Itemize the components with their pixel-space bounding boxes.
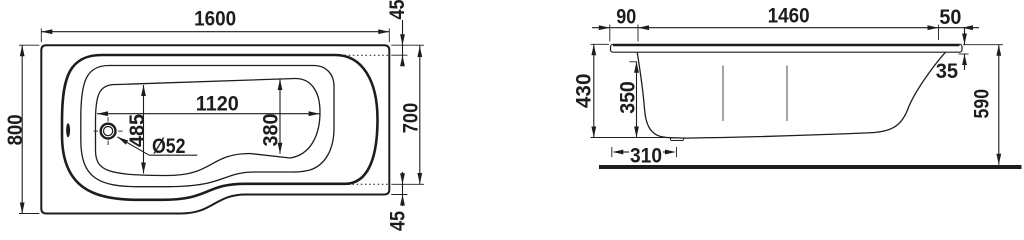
side view: tub body profile (637, 52, 945, 138)
dim 90 label (616, 5, 636, 29)
side view: rim profile (611, 44, 963, 52)
dim 700 label (399, 103, 423, 134)
dim 310 extension ticks (612, 147, 677, 157)
svg-text:380: 380 (259, 113, 283, 146)
dim 310 label (630, 144, 662, 168)
dim 1600 label (194, 7, 236, 31)
dim 350 label (616, 81, 640, 114)
svg-text:430: 430 (572, 73, 596, 108)
dim 430 line (591, 44, 596, 137)
plan view: basin rim inner edge (thick contour) (62, 55, 378, 200)
dim 590 extension line (963, 44, 1003, 46)
dim 430 label (572, 73, 596, 108)
dim 45 bottom-right line (400, 172, 405, 206)
dim 800 line (20, 45, 25, 213)
svg-text:1600: 1600 (194, 7, 236, 31)
svg-text:485: 485 (125, 114, 149, 147)
svg-text:700: 700 (399, 103, 423, 134)
plan view: overflow marker (66, 123, 70, 137)
dim 35 label (936, 59, 958, 83)
side view: panel seam lines (723, 66, 787, 122)
dim 380 line (278, 79, 283, 154)
svg-text:45: 45 (385, 0, 409, 20)
dim 45 bottom-right extension lines (391, 184, 424, 194)
dim 1120 label (196, 92, 239, 116)
dim 430 extension lines (591, 44, 669, 137)
dim 485 line (141, 85, 146, 174)
side view: foot pad (671, 138, 684, 141)
dim 1600 extension lines (41, 29, 389, 43)
plan view: drain crosshair ticks (94, 117, 123, 145)
label diameter 52 (152, 134, 186, 158)
dim 800 label (3, 114, 27, 145)
dim 350 line (634, 62, 639, 138)
dim 310 line (612, 150, 676, 155)
dim 1460 line (638, 25, 939, 30)
plan view: basin middle contour (81, 65, 334, 186)
plan view: tub outer contour (41, 45, 389, 213)
plan view: drain outer circle (101, 124, 116, 139)
dim 50 label (939, 5, 961, 29)
dim 90 line (592, 25, 638, 30)
plan view: basin floor contour (96, 78, 321, 175)
dim 35 extension tick (959, 53, 969, 55)
plan view: hidden rim edge dotted bottom (344, 183, 388, 185)
svg-text:1120: 1120 (196, 92, 239, 116)
dim 590 line (996, 45, 1001, 165)
dim 45 bottom-right label (386, 211, 410, 231)
svg-text:590: 590 (970, 89, 994, 119)
side view: floor line (599, 165, 1022, 169)
plan view: hidden rim edge dotted top (336, 54, 388, 56)
svg-text:35: 35 (936, 59, 958, 83)
svg-text:350: 350 (616, 81, 640, 114)
dim 800 extension lines (19, 45, 39, 213)
dim 485 label (125, 114, 149, 147)
leader diameter 52 (118, 137, 198, 155)
svg-text:45: 45 (386, 211, 410, 231)
dim 45 top-right extension lines (391, 45, 424, 55)
dim 590 label (970, 89, 994, 119)
svg-text:Ø52: Ø52 (152, 134, 186, 158)
dim 700 line (417, 45, 422, 184)
dim 90 extension lines (610, 25, 638, 42)
dim 45 top-right line (400, 20, 405, 66)
dim 45 top-right label (385, 0, 409, 20)
dim 50 line (939, 25, 980, 30)
dim 350 extension tick (630, 61, 638, 63)
svg-text:1460: 1460 (768, 4, 810, 28)
svg-text:800: 800 (3, 114, 27, 145)
svg-text:90: 90 (616, 5, 636, 29)
dim 1600 line (41, 29, 389, 34)
dim 380 label (259, 113, 283, 146)
dim 1460 label (768, 4, 810, 28)
dim 35 line (962, 28, 967, 70)
dim 50 extension line (938, 25, 940, 40)
svg-text:50: 50 (939, 5, 961, 29)
dim 1120 line (97, 111, 320, 116)
svg-text:310: 310 (630, 144, 662, 168)
plan view: drain inner circle (104, 127, 113, 136)
